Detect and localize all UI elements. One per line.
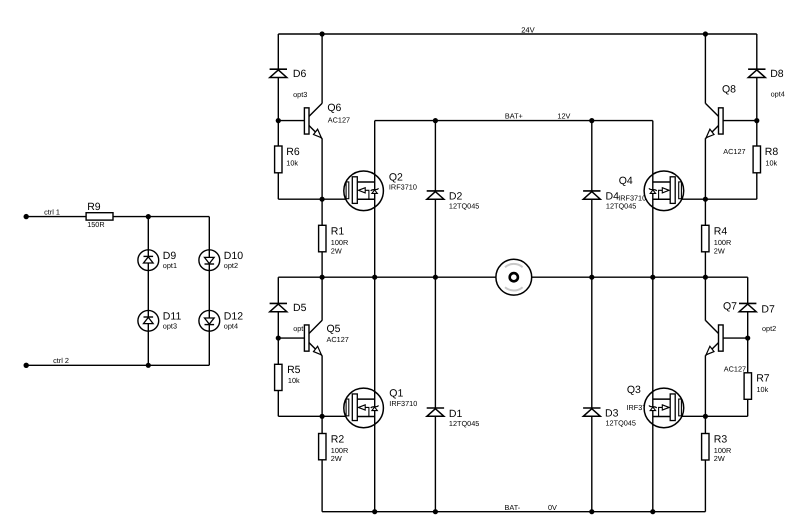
wire 24V down to Q8 collector (704, 34, 706, 104)
svg-text:IRF3710: IRF3710 (618, 194, 646, 203)
svg-text:D10: D10 (224, 250, 243, 262)
junction base node Q7 (745, 335, 750, 340)
svg-text:D3: D3 (605, 407, 619, 419)
wire gate line Q4 (681, 198, 756, 200)
svg-text:D5: D5 (293, 302, 307, 314)
wire gate node down to R2 (321, 416, 323, 433)
diode D8 (748, 68, 785, 99)
svg-text:12V: 12V (557, 112, 570, 121)
svg-text:opt3: opt3 (163, 322, 177, 331)
svg-text:2W: 2W (714, 246, 725, 255)
led D9 (138, 250, 177, 271)
wire D1 column (434, 277, 436, 512)
svg-text:R6: R6 (286, 146, 300, 158)
wire D2 column (434, 121, 436, 278)
resistor R2 (319, 433, 349, 463)
wire gate line Q2 (278, 198, 346, 200)
svg-text:24V: 24V (521, 25, 535, 34)
resistor R6 (275, 146, 300, 173)
wire mid rail down to D7 (747, 277, 749, 303)
diode D2 (427, 190, 480, 210)
svg-text:D7: D7 (761, 304, 775, 316)
pin ctrl 2 terminal (24, 363, 29, 368)
wire Q7 emitter down (704, 355, 706, 416)
wire gate node down to R4 (704, 199, 706, 225)
wire 24V down to D8 (756, 34, 758, 69)
svg-text:R3: R3 (714, 434, 728, 446)
wire R7 down to gate line (747, 399, 749, 416)
svg-text:AC127: AC127 (327, 335, 349, 344)
svg-text:opt4: opt4 (771, 90, 785, 99)
wire Q3 column mid to BAT- (652, 277, 654, 512)
svg-text:Q8: Q8 (722, 84, 736, 96)
node ctrl 2 wire (26, 364, 209, 366)
mosfet Q1 (344, 388, 417, 428)
wire base node to Q6 base (278, 120, 304, 122)
wire R2 to BAT- (321, 460, 323, 512)
diode D7 (739, 303, 776, 332)
junction BAT+/D2 (433, 118, 438, 123)
svg-text:12TQ045: 12TQ045 (606, 419, 636, 428)
svg-text:12TQ045: 12TQ045 (449, 201, 479, 210)
resistor R5 (275, 364, 301, 391)
wire base node down to R8 (756, 121, 758, 146)
wire base node down to R5 (277, 338, 279, 364)
wire gate line Q1 (278, 415, 346, 417)
junction BAT-/D1 (433, 509, 438, 514)
wire R1 to mid rail (321, 252, 323, 277)
led D11 (138, 310, 182, 331)
svg-text:Q5: Q5 (327, 323, 341, 335)
diode D6 (270, 68, 308, 99)
wire gate node down to R3 (704, 416, 706, 433)
transistor Q5 (304, 321, 348, 356)
wire D4 column (591, 121, 593, 278)
svg-text:R7: R7 (756, 372, 770, 384)
wire base node to Q7 base (723, 337, 748, 339)
wire Q4 drain column BAT+ to mid (652, 121, 654, 278)
svg-text:ctrl 1: ctrl 1 (44, 207, 60, 216)
resistor R1 (319, 225, 349, 255)
wire D5 to base node Q5 (277, 312, 279, 338)
diode D1 (427, 408, 480, 428)
svg-text:Q1: Q1 (389, 388, 403, 400)
wire R4 to mid rail (704, 252, 706, 277)
svg-text:opt2: opt2 (224, 261, 238, 270)
wire R6 down to gate line (277, 173, 279, 199)
junction base node Q8 (754, 118, 759, 123)
junction BAT-/D3 (589, 509, 594, 514)
svg-text:opt3: opt3 (293, 90, 307, 99)
wire D8 to base node Q8 (756, 78, 758, 121)
wire Q6 emitter down (321, 138, 323, 199)
wire R9 to LED columns (113, 216, 209, 218)
svg-text:0V: 0V (548, 503, 557, 512)
junction mid/D4-D3 (589, 275, 594, 280)
wire base node down to R6 (277, 121, 279, 146)
junction BAT+/D4 (589, 118, 594, 123)
wire base node down to R7 (747, 338, 749, 373)
resistor R8 (753, 146, 778, 173)
led D12 (199, 310, 243, 331)
resistor R9 (86, 201, 113, 229)
junction mid/Q2-Q1 (372, 275, 377, 280)
svg-text:12TQ045: 12TQ045 (449, 419, 479, 428)
svg-text:12TQ045: 12TQ045 (606, 202, 636, 211)
mosfet Q3 (627, 384, 684, 428)
svg-text:10k: 10k (765, 159, 777, 168)
junction gate line/emitter (320, 197, 325, 202)
node ctrl 1 wire (26, 216, 86, 218)
junction mid/D2-D1 (433, 275, 438, 280)
wire mid rail down to D5 (277, 277, 279, 303)
resistor R7 (744, 372, 770, 399)
svg-text:BAT-: BAT- (505, 503, 521, 512)
svg-text:2W: 2W (331, 454, 342, 463)
svg-text:R2: R2 (331, 433, 345, 445)
svg-text:10k: 10k (286, 159, 298, 168)
wire 24V down to Q6 collector (321, 34, 323, 104)
transistor Q8 (706, 84, 746, 157)
junction BAT-/Q3 (650, 509, 655, 514)
wire gate node down to R1 (321, 199, 323, 225)
wire Q5 emitter down (321, 355, 323, 416)
svg-text:R8: R8 (765, 146, 779, 158)
junction mid/Q4-Q3 (650, 275, 655, 280)
svg-text:Q7: Q7 (723, 301, 737, 313)
junction BAT-/Q1 (372, 509, 377, 514)
resistor R3 (702, 434, 732, 464)
svg-text:2W: 2W (331, 246, 342, 255)
wire mid rail down to Q5 collector (321, 277, 323, 321)
wire D7 to base node Q7 (747, 312, 749, 338)
diode D3 (583, 407, 636, 427)
junction mid/R4 (703, 275, 708, 280)
svg-text:AC127: AC127 (724, 364, 746, 373)
diode D4 (583, 190, 636, 210)
wire base node to Q5 base (278, 337, 304, 339)
junction ctrl1/D9 column (146, 214, 151, 219)
wire mid rail right of motor (532, 276, 748, 278)
wire gate line Q3 (681, 415, 747, 417)
svg-text:Q4: Q4 (619, 175, 633, 187)
svg-text:ctrl 2: ctrl 2 (53, 356, 69, 365)
svg-text:10k: 10k (288, 376, 300, 385)
wire Q2 drain column BAT+ to mid (374, 121, 376, 278)
motor M1 (496, 259, 532, 295)
wire Q8 emitter down (704, 138, 706, 199)
svg-text:R9: R9 (87, 201, 101, 213)
svg-text:Q3: Q3 (627, 384, 641, 396)
svg-text:Q6: Q6 (327, 102, 341, 114)
svg-text:IRF3710: IRF3710 (389, 182, 417, 191)
svg-text:AC127: AC127 (723, 147, 745, 156)
mosfet Q4 (618, 171, 684, 211)
wire D10/D12 column (208, 217, 210, 366)
svg-text:D6: D6 (293, 68, 307, 80)
svg-text:R1: R1 (331, 226, 345, 238)
svg-text:10k: 10k (757, 385, 769, 394)
wire base node to Q8 base (723, 120, 757, 122)
svg-text:opt2: opt2 (762, 324, 776, 333)
svg-text:BAT+: BAT+ (505, 112, 523, 121)
svg-text:opt1: opt1 (163, 261, 177, 270)
wire mid rail left of motor (278, 276, 496, 278)
net BAT+ rail (375, 120, 653, 122)
svg-text:D9: D9 (163, 250, 177, 262)
net BAT- bottom rail (322, 511, 705, 513)
svg-text:AC127: AC127 (328, 115, 350, 124)
junction mid/R1 (320, 275, 325, 280)
net 24V top power rail (278, 33, 757, 35)
wire D3 column (591, 277, 593, 512)
svg-text:D8: D8 (770, 68, 784, 80)
diode D5 (270, 302, 308, 333)
svg-text:2W: 2W (714, 454, 725, 463)
wire R8 down to gate line (756, 173, 758, 199)
junction gate line/emitter Q5 (320, 414, 325, 419)
junction on 24V rail left (320, 31, 325, 36)
junction base node Q5 (276, 335, 281, 340)
junction base node Q6 (276, 118, 281, 123)
junction gate line/emitter right (703, 197, 708, 202)
junction ctrl2/D9 column (146, 363, 151, 368)
svg-text:R4: R4 (714, 226, 728, 238)
wire R3 to BAT- (704, 460, 706, 512)
wire Q1 column mid to BAT- (374, 277, 376, 512)
svg-text:150R: 150R (87, 220, 104, 229)
wire 24V down to D6 (277, 34, 279, 69)
mosfet Q2 (344, 171, 417, 211)
svg-text:D4: D4 (606, 190, 620, 202)
svg-text:IRF3710: IRF3710 (389, 399, 417, 408)
junction gate line/emitter Q7 (703, 414, 708, 419)
wire D9/D11 column (147, 217, 149, 366)
wire mid rail down to Q7 collector (704, 277, 706, 321)
resistor R4 (702, 225, 732, 255)
transistor Q6 (304, 102, 350, 138)
svg-text:R5: R5 (287, 364, 301, 376)
wire R5 down to gate line (277, 391, 279, 417)
transistor Q7 (706, 301, 747, 374)
wire D6 to base node Q6 (277, 78, 279, 121)
svg-text:opt4: opt4 (224, 322, 238, 331)
junction on 24V rail right (703, 31, 708, 36)
led D10 (199, 250, 243, 271)
pin ctrl 1 terminal (24, 214, 29, 219)
